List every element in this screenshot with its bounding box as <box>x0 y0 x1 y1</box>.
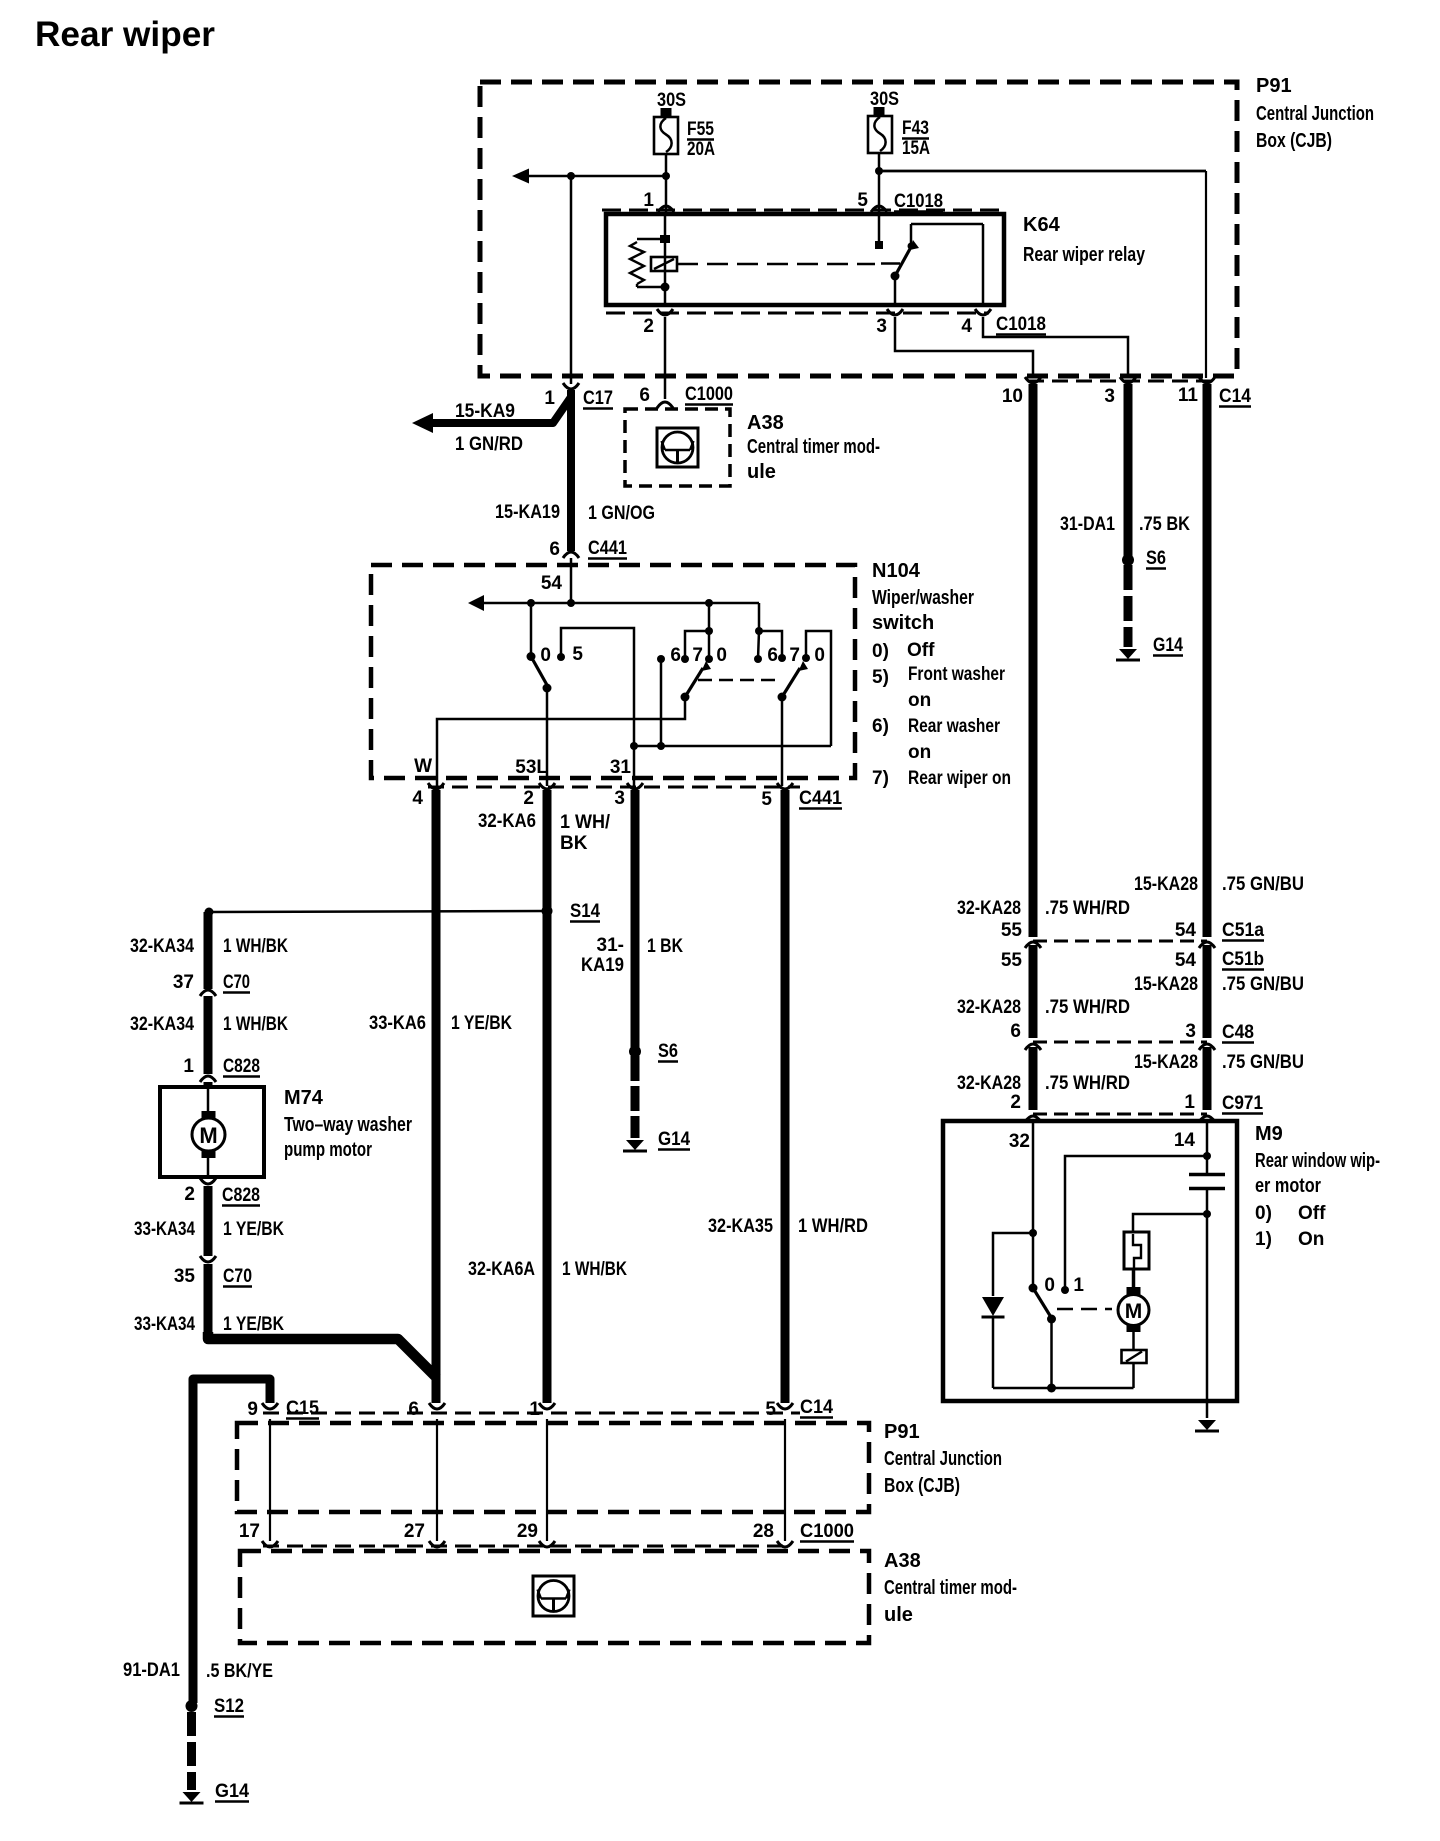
svg-text:.75 GN/BU: .75 GN/BU <box>1222 974 1304 995</box>
svg-text:C828: C828 <box>222 1185 260 1206</box>
svg-text:0): 0) <box>1255 1203 1272 1224</box>
svg-text:Rear wiper on: Rear wiper on <box>908 768 1011 789</box>
svg-text:1: 1 <box>544 388 555 409</box>
svg-text:7: 7 <box>789 645 800 666</box>
svg-text:17: 17 <box>239 1521 260 1542</box>
svg-text:C14: C14 <box>800 1397 833 1418</box>
svg-text:C441: C441 <box>588 538 627 559</box>
svg-text:6: 6 <box>1010 1021 1021 1042</box>
svg-text:Two–way washer: Two–way washer <box>284 1114 412 1136</box>
svg-text:32-KA35: 32-KA35 <box>708 1216 773 1237</box>
svg-text:On: On <box>1298 1229 1324 1250</box>
svg-text:1 GN/RD: 1 GN/RD <box>455 434 523 455</box>
svg-text:C51a: C51a <box>1222 920 1264 941</box>
svg-text:2: 2 <box>184 1184 195 1205</box>
svg-text:1 YE/BK: 1 YE/BK <box>451 1013 512 1034</box>
svg-text:0: 0 <box>814 645 825 666</box>
svg-text:.75 WH/RD: .75 WH/RD <box>1045 1073 1130 1094</box>
svg-text:2: 2 <box>1010 1092 1021 1113</box>
svg-text:4: 4 <box>412 788 423 809</box>
svg-text:6): 6) <box>872 716 889 737</box>
svg-text:S6: S6 <box>658 1041 678 1062</box>
svg-text:5: 5 <box>857 190 868 211</box>
svg-text:.75 BK: .75 BK <box>1139 514 1190 535</box>
svg-text:F43: F43 <box>902 118 929 139</box>
svg-text:33-KA34: 33-KA34 <box>134 1314 195 1335</box>
svg-text:C17: C17 <box>583 388 613 409</box>
svg-text:C15: C15 <box>286 1398 319 1419</box>
svg-text:0: 0 <box>540 645 551 666</box>
svg-text:5: 5 <box>761 789 772 810</box>
svg-text:2: 2 <box>523 788 534 809</box>
svg-text:1: 1 <box>183 1056 194 1077</box>
svg-text:0): 0) <box>872 641 889 662</box>
svg-text:1 YE/BK: 1 YE/BK <box>223 1314 284 1335</box>
svg-text:30S: 30S <box>657 90 686 111</box>
svg-text:4: 4 <box>961 316 972 337</box>
svg-text:C1018: C1018 <box>996 314 1046 335</box>
svg-text:11: 11 <box>1178 385 1199 406</box>
svg-text:1 WH/BK: 1 WH/BK <box>223 1014 288 1035</box>
svg-text:1: 1 <box>1184 1092 1195 1113</box>
svg-text:.5 BK/YE: .5 BK/YE <box>206 1661 273 1682</box>
svg-text:switch: switch <box>872 612 934 634</box>
svg-text:35: 35 <box>174 1266 196 1287</box>
svg-text:15-KA28: 15-KA28 <box>1134 874 1198 895</box>
svg-text:G14: G14 <box>658 1129 690 1150</box>
svg-text:55: 55 <box>1001 950 1023 971</box>
svg-text:1: 1 <box>1073 1275 1084 1296</box>
svg-text:54: 54 <box>1175 920 1197 941</box>
svg-text:on: on <box>908 690 931 711</box>
svg-text:S12: S12 <box>214 1696 244 1717</box>
svg-text:M9: M9 <box>1255 1123 1283 1145</box>
svg-text:32-KA28: 32-KA28 <box>957 1073 1021 1094</box>
svg-text:.75 WH/RD: .75 WH/RD <box>1045 997 1130 1018</box>
svg-text:6: 6 <box>767 645 778 666</box>
svg-text:Rear window wip-: Rear window wip- <box>1255 1150 1380 1172</box>
svg-text:1 WH/BK: 1 WH/BK <box>562 1259 627 1280</box>
svg-text:15A: 15A <box>902 138 930 159</box>
svg-text:Off: Off <box>907 640 935 661</box>
svg-text:53L: 53L <box>515 757 548 778</box>
svg-text:31: 31 <box>610 757 632 778</box>
svg-text:C14: C14 <box>1219 386 1251 407</box>
svg-text:C70: C70 <box>223 972 250 993</box>
svg-text:C441: C441 <box>799 788 842 809</box>
svg-text:Wiper/washer: Wiper/washer <box>872 587 974 609</box>
svg-text:G14: G14 <box>1153 635 1183 656</box>
svg-text:P91: P91 <box>884 1421 920 1443</box>
svg-text:31-DA1: 31-DA1 <box>1060 514 1115 535</box>
svg-text:pump motor: pump motor <box>284 1139 372 1161</box>
svg-text:1 YE/BK: 1 YE/BK <box>223 1219 284 1240</box>
svg-text:Rear wiper relay: Rear wiper relay <box>1023 244 1146 266</box>
svg-text:BK: BK <box>560 833 588 854</box>
svg-text:Central Junction: Central Junction <box>884 1448 1002 1470</box>
svg-text:M: M <box>199 1123 217 1148</box>
svg-text:31-: 31- <box>597 935 624 956</box>
svg-text:7: 7 <box>692 645 703 666</box>
svg-text:0: 0 <box>1044 1275 1055 1296</box>
svg-text:32-KA28: 32-KA28 <box>957 898 1021 919</box>
svg-text:K64: K64 <box>1023 214 1061 236</box>
svg-text:32-KA6A: 32-KA6A <box>468 1259 535 1280</box>
svg-text:27: 27 <box>404 1521 425 1542</box>
svg-text:32-KA34: 32-KA34 <box>130 936 194 957</box>
svg-text:Rear washer: Rear washer <box>908 716 1000 737</box>
svg-text:N104: N104 <box>872 560 921 582</box>
svg-text:A38: A38 <box>747 412 784 434</box>
svg-text:29: 29 <box>517 1521 538 1542</box>
svg-text:ule: ule <box>884 1604 913 1626</box>
svg-text:6: 6 <box>639 385 650 406</box>
svg-text:Central Junction: Central Junction <box>1256 103 1374 125</box>
svg-text:S14: S14 <box>570 901 600 922</box>
svg-text:C828: C828 <box>223 1056 260 1077</box>
svg-text:15-KA19: 15-KA19 <box>495 502 560 523</box>
svg-text:2: 2 <box>643 316 654 337</box>
svg-text:20A: 20A <box>687 139 715 160</box>
svg-text:C971: C971 <box>1222 1093 1263 1114</box>
svg-text:C51b: C51b <box>1222 949 1264 970</box>
svg-text:6: 6 <box>670 645 681 666</box>
svg-text:32-KA28: 32-KA28 <box>957 997 1021 1018</box>
svg-text:1 WH/: 1 WH/ <box>560 812 611 833</box>
svg-text:on: on <box>908 742 931 763</box>
svg-text:.75 GN/BU: .75 GN/BU <box>1222 874 1304 895</box>
svg-text:1: 1 <box>529 1399 540 1420</box>
svg-text:ule: ule <box>747 461 776 483</box>
svg-text:0: 0 <box>716 645 727 666</box>
svg-text:1): 1) <box>1255 1229 1272 1250</box>
svg-text:Central timer mod-: Central timer mod- <box>747 436 880 458</box>
svg-text:32: 32 <box>1009 1131 1030 1152</box>
svg-text:54: 54 <box>1175 950 1197 971</box>
svg-text:5): 5) <box>872 667 889 688</box>
svg-text:Central timer mod-: Central timer mod- <box>884 1577 1017 1599</box>
svg-text:6: 6 <box>549 539 560 560</box>
svg-text:32-KA34: 32-KA34 <box>130 1014 194 1035</box>
svg-text:C1000: C1000 <box>685 384 733 405</box>
svg-text:5: 5 <box>765 1399 776 1420</box>
svg-text:15-KA9: 15-KA9 <box>455 401 515 422</box>
svg-text:F55: F55 <box>687 119 714 140</box>
svg-text:3: 3 <box>1185 1021 1196 1042</box>
svg-text:14: 14 <box>1174 1130 1196 1151</box>
svg-text:.75 WH/RD: .75 WH/RD <box>1045 898 1130 919</box>
svg-text:KA19: KA19 <box>581 955 624 976</box>
svg-text:3: 3 <box>876 316 887 337</box>
svg-text:C1018: C1018 <box>894 191 943 212</box>
svg-text:Off: Off <box>1298 1203 1326 1224</box>
svg-text:32-KA6: 32-KA6 <box>478 811 536 832</box>
svg-text:C1000: C1000 <box>800 1521 854 1542</box>
svg-text:7): 7) <box>872 768 889 789</box>
svg-text:.75 GN/BU: .75 GN/BU <box>1222 1052 1304 1073</box>
svg-text:1 BK: 1 BK <box>647 936 683 957</box>
svg-text:1 WH/BK: 1 WH/BK <box>223 936 288 957</box>
svg-text:15-KA28: 15-KA28 <box>1134 1052 1198 1073</box>
svg-text:28: 28 <box>753 1521 774 1542</box>
svg-text:3: 3 <box>614 788 625 809</box>
svg-text:9: 9 <box>247 1399 258 1420</box>
svg-text:P91: P91 <box>1256 75 1292 97</box>
svg-text:Box (CJB): Box (CJB) <box>1256 130 1332 152</box>
svg-text:Front washer: Front washer <box>908 664 1005 685</box>
svg-text:1 WH/RD: 1 WH/RD <box>798 1216 868 1237</box>
svg-text:G14: G14 <box>215 1781 249 1802</box>
svg-text:6: 6 <box>408 1399 419 1420</box>
svg-text:C70: C70 <box>223 1266 252 1287</box>
svg-text:10: 10 <box>1002 386 1023 407</box>
svg-text:55: 55 <box>1001 920 1023 941</box>
svg-text:37: 37 <box>173 972 194 993</box>
svg-text:91-DA1: 91-DA1 <box>123 1660 180 1681</box>
svg-text:30S: 30S <box>870 89 899 110</box>
svg-text:M74: M74 <box>284 1087 324 1109</box>
svg-text:W: W <box>414 756 432 777</box>
svg-text:er motor: er motor <box>1255 1175 1321 1197</box>
svg-text:15-KA28: 15-KA28 <box>1134 974 1198 995</box>
svg-text:3: 3 <box>1104 386 1115 407</box>
svg-text:33-KA34: 33-KA34 <box>134 1219 195 1240</box>
svg-text:S6: S6 <box>1146 548 1166 569</box>
svg-text:C48: C48 <box>1222 1022 1254 1043</box>
svg-text:1: 1 <box>643 190 654 211</box>
svg-text:54: 54 <box>541 573 563 594</box>
svg-text:33-KA6: 33-KA6 <box>369 1013 426 1034</box>
svg-text:1 GN/OG: 1 GN/OG <box>588 503 655 524</box>
svg-text:M: M <box>1125 1300 1143 1323</box>
svg-text:5: 5 <box>572 644 583 665</box>
svg-text:A38: A38 <box>884 1550 921 1572</box>
svg-text:Box (CJB): Box (CJB) <box>884 1475 960 1497</box>
svg-text:Rear wiper: Rear wiper <box>35 15 215 54</box>
